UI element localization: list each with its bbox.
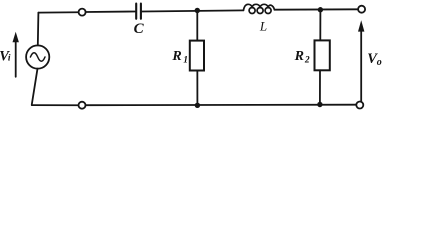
svg-text:o: o	[377, 57, 382, 68]
wire bottom rail left	[32, 104, 79, 106]
node junction dot top R2	[318, 7, 323, 12]
node junction dot top R1	[195, 8, 200, 13]
svg-text:1: 1	[183, 56, 188, 66]
capacitor C plates	[136, 4, 141, 19]
resistor R2 body	[315, 40, 330, 70]
terminal (open circle) top-right	[358, 6, 365, 13]
wire bottom rail right	[86, 104, 357, 107]
terminal (open circle) bottom-left	[79, 102, 86, 109]
wire left vertical bottom	[32, 69, 38, 106]
terminal (open circle) top-left	[79, 9, 86, 16]
wire R1 top lead	[196, 10, 198, 40]
wire R2 top lead	[319, 10, 321, 41]
wire top rail: left corner to terminal	[38, 11, 78, 13]
source V_i circle	[26, 45, 49, 68]
V_i arrowhead	[13, 32, 19, 43]
terminal (open circle) bottom-right	[356, 102, 363, 109]
svg-text:R: R	[294, 49, 304, 64]
svg-text:2: 2	[304, 55, 310, 65]
svg-text:i: i	[8, 54, 11, 64]
source sine wave	[30, 53, 45, 62]
resistor R1 body	[190, 41, 204, 71]
svg-text:L: L	[259, 19, 267, 34]
wire R1 bottom lead	[196, 71, 198, 106]
wire inductor to right terminal	[275, 8, 359, 10]
V_i arrow shaft	[15, 42, 17, 77]
node junction dot bottom R2	[317, 102, 322, 107]
svg-text:C: C	[134, 21, 145, 37]
wire R2 bottom lead	[319, 70, 321, 104]
wire terminal to capacitor	[86, 11, 135, 14]
V_o arrow shaft	[360, 31, 362, 102]
wire left vertical top	[37, 13, 40, 46]
svg-text:R: R	[171, 49, 181, 64]
node junction dot bottom R1	[195, 103, 200, 108]
inductor L coil	[243, 4, 274, 13]
wire capacitor to inductor	[142, 10, 243, 11]
V_o arrowhead	[358, 20, 364, 31]
